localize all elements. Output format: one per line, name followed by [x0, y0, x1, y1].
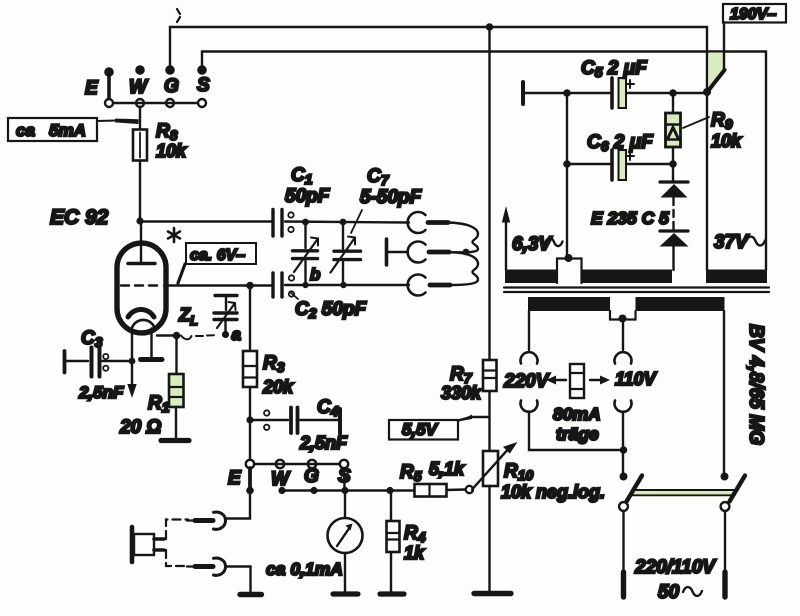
wire R1 bottom — [175, 407, 177, 438]
svg-text:G: G — [164, 76, 179, 97]
tube EC92 envelope — [117, 243, 166, 333]
ground bar meter — [333, 591, 358, 596]
wire top rail down right side — [706, 27, 708, 270]
stray ink mark top — [177, 9, 180, 22]
wire C4 node to switch row 2 — [249, 424, 251, 460]
junction dot C5 left node — [563, 89, 571, 97]
switch contact left — [619, 502, 628, 511]
wire meter bus — [282, 489, 414, 491]
fuse 80mA — [570, 364, 584, 398]
svg-text:E: E — [228, 468, 242, 489]
wire R5 to wiper — [447, 488, 466, 491]
svg-text:EC 92: EC 92 — [50, 206, 109, 229]
wire 220V contact to switch node — [529, 412, 623, 451]
dot R4 node — [386, 487, 393, 494]
tube cathode stem — [132, 320, 156, 330]
diode D2 — [660, 231, 689, 247]
capacitor C1 plates — [273, 210, 294, 237]
arrow up 6,3V — [502, 206, 510, 223]
box ca 5mA — [8, 118, 97, 141]
terminal E (row 2) — [246, 460, 254, 468]
terminal plate C5 left — [521, 82, 525, 104]
svg-text:ca 5mA: ca 5mA — [16, 121, 86, 140]
socket contact 220V lower — [521, 401, 538, 412]
svg-text:110V: 110V — [615, 369, 658, 389]
junction dot C6 left — [563, 160, 571, 168]
transformer primary winding left bar — [505, 270, 557, 284]
wire terminal row 2 bus — [254, 463, 340, 465]
svg-text:S: S — [197, 75, 210, 96]
coil L1 hook bottom — [408, 275, 426, 296]
wire 190V diagonal to node — [708, 70, 725, 91]
pointer 5,5V box to rail — [458, 417, 490, 421]
asterisk mark — [168, 228, 180, 242]
wire G to top rail — [170, 27, 707, 67]
wire R9 top — [672, 93, 674, 113]
ground bar R1 — [161, 438, 189, 443]
junction dot b-column top — [302, 219, 309, 226]
wire R3 bottom — [249, 387, 251, 420]
svg-text:E: E — [85, 78, 99, 99]
svg-text:C2 50pF: C2 50pF — [295, 299, 368, 321]
variable capacitor b — [293, 238, 319, 273]
ground bar R4 — [380, 591, 404, 596]
dashed wire speaker upper — [166, 520, 188, 540]
primary notch outline — [557, 259, 582, 284]
capacitor C2 plates — [273, 273, 294, 297]
arrow to 110V — [590, 379, 603, 381]
coil right loop upper — [448, 223, 478, 253]
coil centre-tap stub bar — [385, 239, 389, 265]
svg-text:220/110V: 220/110V — [634, 557, 716, 578]
tube cathode arc — [128, 309, 154, 317]
switch blade E row2 (closed) — [248, 468, 252, 489]
junction dot b-column bottom — [302, 282, 308, 288]
potentiometer R10 — [472, 442, 518, 490]
wire C5node down to C6 — [566, 93, 568, 257]
wire mains left — [622, 511, 624, 572]
wire S to second rail — [202, 52, 766, 68]
box 5,5V — [389, 420, 458, 440]
wire R1 top — [175, 336, 177, 375]
grid wire out of tube — [164, 284, 272, 286]
dot S row2 — [341, 487, 348, 494]
node a dot — [222, 331, 229, 338]
socket contact 110V lower — [615, 401, 632, 412]
phone jack upper — [187, 512, 226, 529]
pointer tick from ca.6V box — [178, 264, 185, 283]
wire C5 to 190V node — [627, 92, 707, 94]
wire anode node to C1 — [140, 220, 272, 222]
socket contact 220V upper — [521, 352, 538, 363]
pointer R9 label — [683, 117, 709, 128]
svg-text:E 235 C 5: E 235 C 5 — [591, 208, 669, 228]
svg-text:20 Ω: 20 Ω — [119, 417, 161, 438]
terminal E (row 1) — [85, 68, 113, 107]
wire R9 bottom — [672, 147, 674, 163]
junction dot C7-column bottom — [340, 282, 346, 288]
junction dot R9 top — [669, 89, 677, 97]
wire lower jack to ground — [226, 567, 251, 593]
junction dot primary tap — [565, 254, 573, 262]
svg-text:37V: 37V — [714, 232, 749, 253]
tube anode lead — [140, 221, 142, 262]
svg-text:W: W — [271, 469, 291, 490]
capacitor C6 (electrolytic) — [567, 150, 673, 180]
wire D2 to winding — [672, 246, 674, 270]
junction dot C4 node — [246, 416, 253, 423]
svg-text:80mA: 80mA — [553, 404, 601, 424]
svg-text:50pF: 50pF — [285, 186, 331, 207]
ground bar lower jack — [240, 592, 262, 597]
coil bar bottom — [430, 283, 450, 288]
junction dot diode top — [669, 160, 677, 168]
svg-text:ca 0,1mA: ca 0,1mA — [266, 559, 343, 579]
tube left lead down — [131, 334, 133, 361]
terminal S (row 1) — [197, 66, 210, 107]
resistor R8 — [133, 121, 187, 161]
wire C1 to coil top — [285, 222, 409, 223]
centre rail down — [488, 27, 490, 360]
transformer core lines — [504, 286, 769, 288]
wire stub to middle loop — [387, 251, 408, 253]
green highlight wire 190V — [709, 53, 725, 91]
mains pin left — [621, 572, 626, 597]
resistor R5 — [415, 484, 447, 497]
transformer secondary left bar — [528, 297, 610, 311]
dashed wire speaker lower — [166, 550, 188, 566]
wire E row2 down to jack — [226, 491, 251, 519]
terminal W (row 1) — [129, 66, 149, 107]
svg-text:ca. 6V–: ca. 6V– — [190, 247, 245, 264]
variable capacitor C7 — [331, 237, 361, 273]
svg-text:BV 4,8/65 MG: BV 4,8/65 MG — [745, 324, 767, 445]
trimmer capacitor at a — [214, 296, 237, 332]
svg-text:50: 50 — [658, 582, 680, 603]
svg-text:5,5V: 5,5V — [402, 420, 439, 439]
switch link bar (green) — [633, 490, 734, 495]
svg-text:a: a — [232, 325, 241, 344]
socket contact 110V upper — [615, 352, 632, 363]
svg-text:W: W — [129, 77, 149, 98]
wire secondary right end down — [723, 311, 725, 476]
coil bar middle — [429, 250, 449, 255]
svg-text:6,3V: 6,3V — [512, 234, 552, 255]
terminal S (row 2) — [340, 460, 348, 468]
junction dot top rail / centre wire — [486, 23, 494, 31]
terminal W (row 2) — [276, 460, 284, 468]
secondary tap step outline — [610, 311, 636, 320]
pointer from ca 5mA box to R8 lead — [97, 120, 116, 123]
wire 110V contact down — [622, 412, 624, 477]
transformer secondary right bar — [636, 297, 725, 311]
svg-text:10k: 10k — [156, 141, 187, 161]
dashed link cathode to node a — [181, 335, 214, 339]
wire R10 bottom — [488, 486, 490, 591]
switch contact right — [721, 502, 730, 511]
switch link S row2 — [343, 468, 346, 488]
diode D1 — [660, 182, 688, 198]
wire R4 bottom — [390, 552, 392, 592]
switch lever right — [730, 476, 746, 502]
junction dot E row2 — [246, 487, 254, 495]
cathode ground bar — [141, 357, 163, 362]
meter lead top — [344, 491, 346, 519]
dot G row2 — [310, 487, 317, 494]
capacitor C3 — [65, 348, 133, 377]
terminal G (row 1) — [164, 66, 179, 107]
svg-text:10k neg.log.: 10k neg.log. — [501, 482, 605, 502]
pointer C7 label to cap — [351, 210, 362, 233]
wire secondary left end down — [528, 311, 530, 350]
coil bar top — [428, 220, 448, 225]
wire to diode 1 — [672, 164, 674, 182]
wire terminal row 1 bus — [114, 102, 198, 104]
junction dot switch right top — [721, 473, 729, 481]
wire 190V lead — [723, 23, 725, 72]
svg-text:190V–: 190V– — [730, 6, 776, 23]
mains pin right — [722, 572, 727, 597]
terminal G (row 2) — [308, 460, 316, 468]
wire C2 to coil bottom — [285, 284, 409, 286]
dashed link diodes — [672, 198, 674, 229]
junction dot C7-column top — [340, 219, 347, 226]
tube grid (dashed) — [121, 284, 157, 286]
ground bar R10 — [474, 591, 511, 596]
wiper contact circle — [466, 486, 473, 493]
svg-text:5-50pF: 5-50pF — [360, 187, 423, 208]
svg-text:5,1k: 5,1k — [429, 459, 465, 479]
loudspeaker — [132, 527, 164, 562]
junction dot switch left top — [620, 473, 628, 481]
coil right loop lower — [450, 252, 478, 285]
box 190V — [723, 4, 786, 23]
meter lead bottom — [344, 553, 346, 592]
wire R7 to R10 — [488, 391, 490, 451]
junction dot coil middle — [463, 249, 470, 256]
wire plate to C5 — [524, 92, 610, 94]
wire secondary tap down — [622, 322, 624, 350]
svg-text:330k: 330k — [441, 383, 482, 403]
svg-text:C6 2 μF: C6 2 μF — [587, 132, 654, 154]
wire W terminal to R8 — [139, 107, 141, 130]
coil L1 hook top — [408, 212, 426, 233]
svg-text:träge: träge — [556, 424, 599, 444]
dot W row2 — [278, 487, 285, 494]
meter ca 0,1mA — [328, 518, 363, 553]
transformer primary winding right bar — [706, 270, 767, 284]
svg-text:20k: 20k — [262, 377, 294, 397]
right transformer edge — [765, 52, 767, 271]
box ca. 6V- — [186, 243, 256, 264]
tube anode plate — [128, 262, 155, 265]
resistor R9 (green with marks) — [666, 113, 681, 147]
pointer C2 label — [291, 293, 298, 299]
resistor R3 — [243, 351, 257, 387]
wire R8 to anode node — [139, 161, 141, 222]
switch lever left — [627, 476, 643, 502]
junction dot grid / R3 — [246, 282, 254, 290]
arrow down from C3 node — [131, 361, 133, 385]
arrow to 220V — [553, 379, 566, 381]
svg-text:2,5nF: 2,5nF — [299, 433, 348, 453]
svg-text:b: b — [310, 265, 320, 284]
wire b column — [304, 222, 306, 285]
svg-text:2,5nF: 2,5nF — [78, 383, 124, 402]
wire R3 top — [249, 285, 251, 351]
wire R4 top — [390, 491, 392, 522]
resistor R1 (green) — [169, 374, 184, 407]
capacitor C5 (electrolytic) — [612, 78, 634, 108]
transformer primary winding middle bar — [582, 270, 673, 284]
junction dot mains node — [620, 446, 628, 454]
junction dot cathode net / R1 top — [157, 334, 177, 336]
junction dot secondary tap — [619, 315, 627, 323]
svg-text:10k: 10k — [711, 131, 742, 151]
coil L1 hook middle — [408, 242, 426, 263]
capacitor C4 — [250, 408, 340, 434]
junction dot C3 node — [129, 358, 136, 365]
resistor R7 — [483, 360, 497, 391]
junction dot 190V node — [703, 88, 711, 96]
svg-text:220V: 220V — [503, 371, 550, 392]
phone jack lower — [187, 558, 226, 575]
junction node anode — [136, 217, 143, 224]
wire C7 column — [342, 222, 344, 285]
svg-text:C5 2 μF: C5 2 μF — [581, 58, 648, 80]
wire mains right — [724, 511, 726, 572]
svg-text:G: G — [304, 466, 319, 487]
svg-text:1k: 1k — [404, 543, 425, 563]
resistor R4 — [387, 521, 400, 552]
